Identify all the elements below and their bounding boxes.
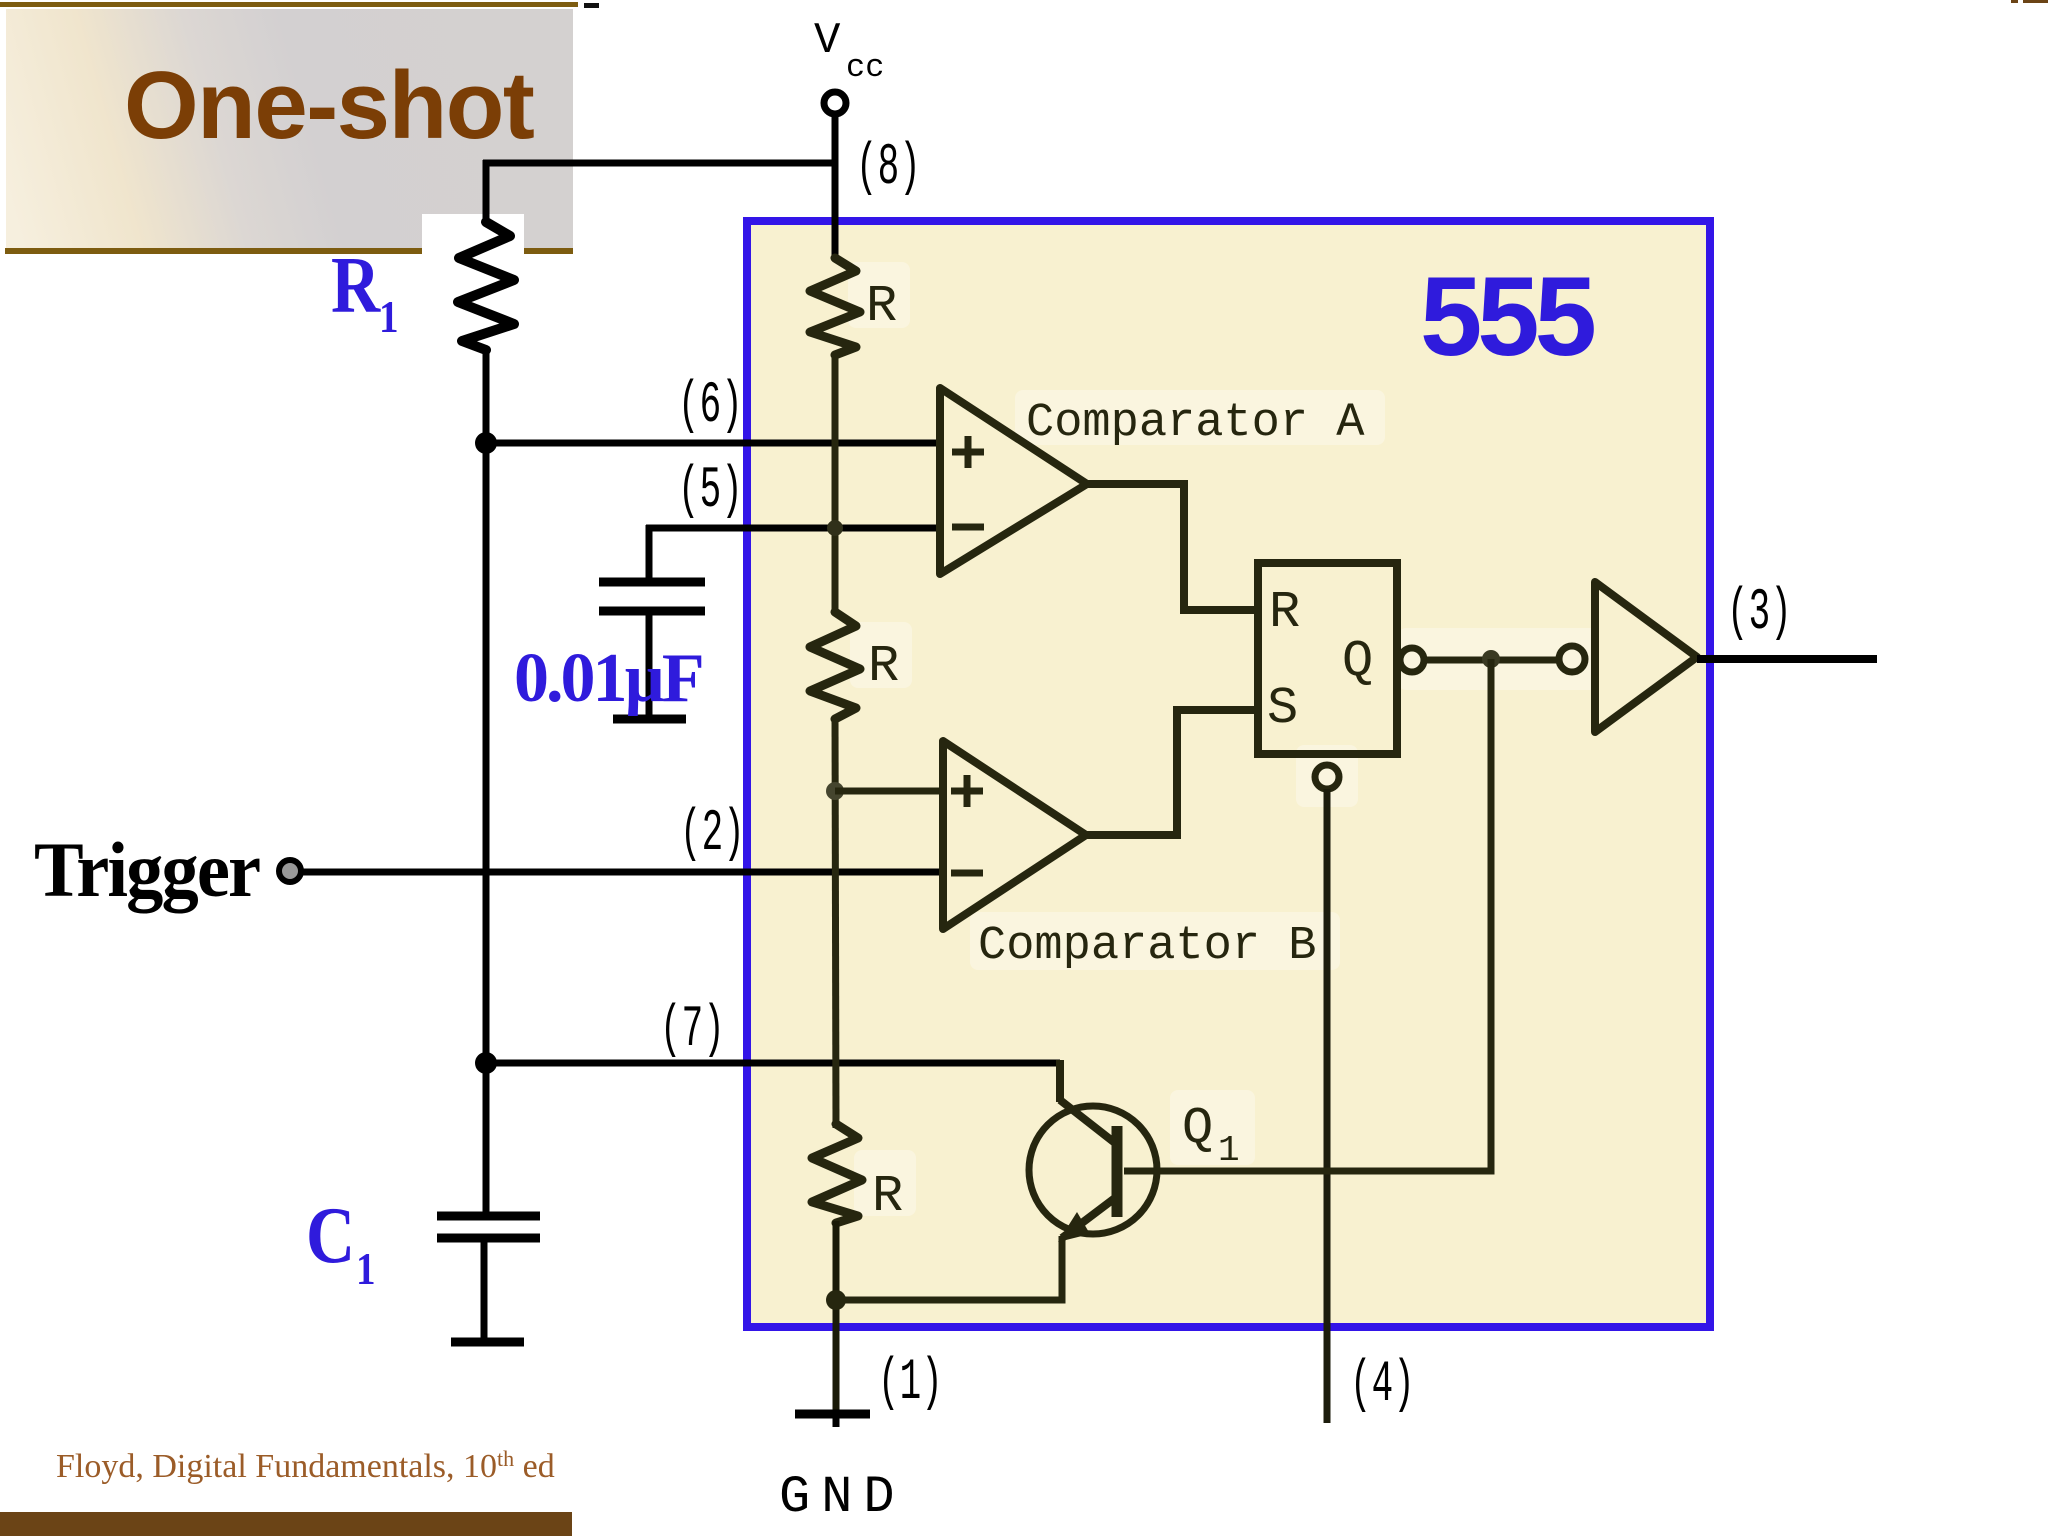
wire compB plus input (835, 788, 945, 795)
wire Q to buffer (1424, 657, 1558, 664)
internal divider resistor R middle (810, 612, 860, 719)
svg-text:1: 1 (356, 1244, 376, 1295)
wire pin 6 threshold (486, 440, 941, 447)
svg-text:R: R (866, 277, 897, 336)
wire cap bottom lead (646, 611, 653, 719)
Q1 emitter stroke (1062, 1198, 1115, 1238)
stray top dash (584, 3, 599, 8)
node junction pin5/rail (827, 520, 843, 536)
node junction compB plus (826, 782, 844, 800)
svg-text:Comparator A: Comparator A (1026, 397, 1365, 450)
svg-text:1: 1 (1218, 1130, 1240, 1171)
node junction Q/base (1482, 650, 1500, 668)
header bottom brown rule (5, 248, 573, 254)
wire pin 2 trigger (301, 869, 944, 876)
svg-text:One-shot: One-shot (124, 52, 534, 159)
op-amp comparator B (943, 741, 1086, 929)
capacitor C1 plates (437, 1212, 540, 1221)
wire C1 bottom lead (481, 1238, 488, 1342)
ground symbol pin1 (795, 1410, 870, 1419)
header top brown rule (0, 2, 578, 7)
Vcc terminal (824, 92, 846, 114)
wire cap C2 top lead (646, 525, 653, 582)
internal divider resistor R top (810, 258, 860, 355)
C1 label (306, 1192, 376, 1295)
svg-text:V: V (814, 16, 841, 66)
wire compB output to latch S (1086, 710, 1258, 835)
svg-text:Q: Q (1182, 1099, 1213, 1158)
svg-text:(8): (8) (856, 136, 921, 201)
node junction pin7 (475, 1052, 497, 1074)
wire Vcc vertical lead to rail (832, 114, 839, 260)
svg-text:(6): (6) (678, 374, 743, 439)
header gradient panel (6, 9, 573, 249)
svg-text:R: R (872, 1167, 903, 1226)
svg-text:R: R (1269, 583, 1300, 642)
svg-text:(5): (5) (678, 459, 743, 524)
buffer input bubble (1559, 646, 1585, 672)
svg-text:(7): (7) (660, 998, 725, 1063)
capacitor 0.01uF plates (599, 578, 705, 587)
footer brown bar (0, 1512, 572, 1536)
wire pin 4 reset (1324, 789, 1331, 1423)
svg-text:Comparator B: Comparator B (978, 920, 1316, 973)
svg-text:555: 555 (1420, 254, 1595, 379)
latch Q output bubble (1400, 648, 1424, 672)
top-right corner icon (2011, 0, 2048, 3)
svg-text:0.01µF: 0.01µF (514, 640, 702, 717)
C1 ground bar (451, 1338, 524, 1347)
svg-text:(4): (4) (1350, 1353, 1415, 1418)
Q1 base bar (1112, 1126, 1123, 1217)
node junction emitter (826, 1290, 846, 1310)
internal resistor R bottom (812, 1124, 862, 1223)
wire R1 top lead (483, 160, 490, 224)
node junction pin6 (475, 432, 497, 454)
cap ground bar (613, 715, 686, 724)
Vcc label (814, 16, 884, 86)
wire pin 7 discharge (486, 1060, 1060, 1067)
scan halo patches (848, 262, 1598, 1216)
wire pin 3 output (1697, 655, 1877, 663)
R1 label (331, 242, 399, 343)
555 IC boundary box U1 (747, 221, 1710, 1327)
compB minus marker (951, 870, 983, 877)
svg-text:GND: GND (779, 1468, 906, 1527)
wire left rail R1 to C1 (483, 348, 490, 1216)
compA plus marker (952, 436, 984, 468)
svg-text:R: R (868, 637, 899, 696)
wire divider rail upper (832, 353, 839, 614)
latch box (1258, 563, 1397, 754)
output buffer triangle (1595, 582, 1697, 732)
white patch of schematic overlapping header (422, 214, 524, 258)
svg-text:R: R (331, 242, 381, 330)
compB plus marker (951, 775, 983, 807)
trigger terminal (279, 860, 301, 882)
wire pin 5 control (646, 525, 941, 532)
wire rail to pin1 (833, 1221, 840, 1414)
svg-text:Q: Q (1342, 632, 1373, 691)
svg-text:C: C (306, 1192, 355, 1280)
wire Q junction down to base (1124, 659, 1491, 1171)
resistor R1 (458, 222, 514, 350)
svg-text:1: 1 (379, 292, 399, 343)
wire divider rail lower (835, 717, 836, 1128)
svg-text:cc: cc (846, 49, 884, 86)
Q1 emitter arrowhead (1058, 1212, 1090, 1242)
compA minus marker (952, 524, 984, 531)
svg-text:(2): (2) (680, 802, 745, 867)
Q1 collector stroke (1060, 1100, 1115, 1143)
svg-text:(3): (3) (1727, 581, 1792, 646)
svg-text:Trigger: Trigger (34, 827, 260, 913)
svg-text:(1): (1) (878, 1351, 943, 1416)
op-amp comparator A (940, 388, 1087, 574)
transistor Q1 (1029, 1106, 1157, 1234)
latch Qbar bubble (1315, 765, 1339, 789)
wire emitter lead (834, 1236, 1062, 1300)
Q1 label (1182, 1099, 1240, 1171)
wire Vcc horizontal to R1 (483, 160, 838, 167)
svg-text:Floyd, Digital Fundamentals, 1: Floyd, Digital Fundamentals, 10th ed (56, 1446, 555, 1485)
wire compA output to latch R (1087, 484, 1258, 610)
wire collector lead (1056, 1060, 1064, 1102)
svg-text:S: S (1267, 679, 1298, 738)
